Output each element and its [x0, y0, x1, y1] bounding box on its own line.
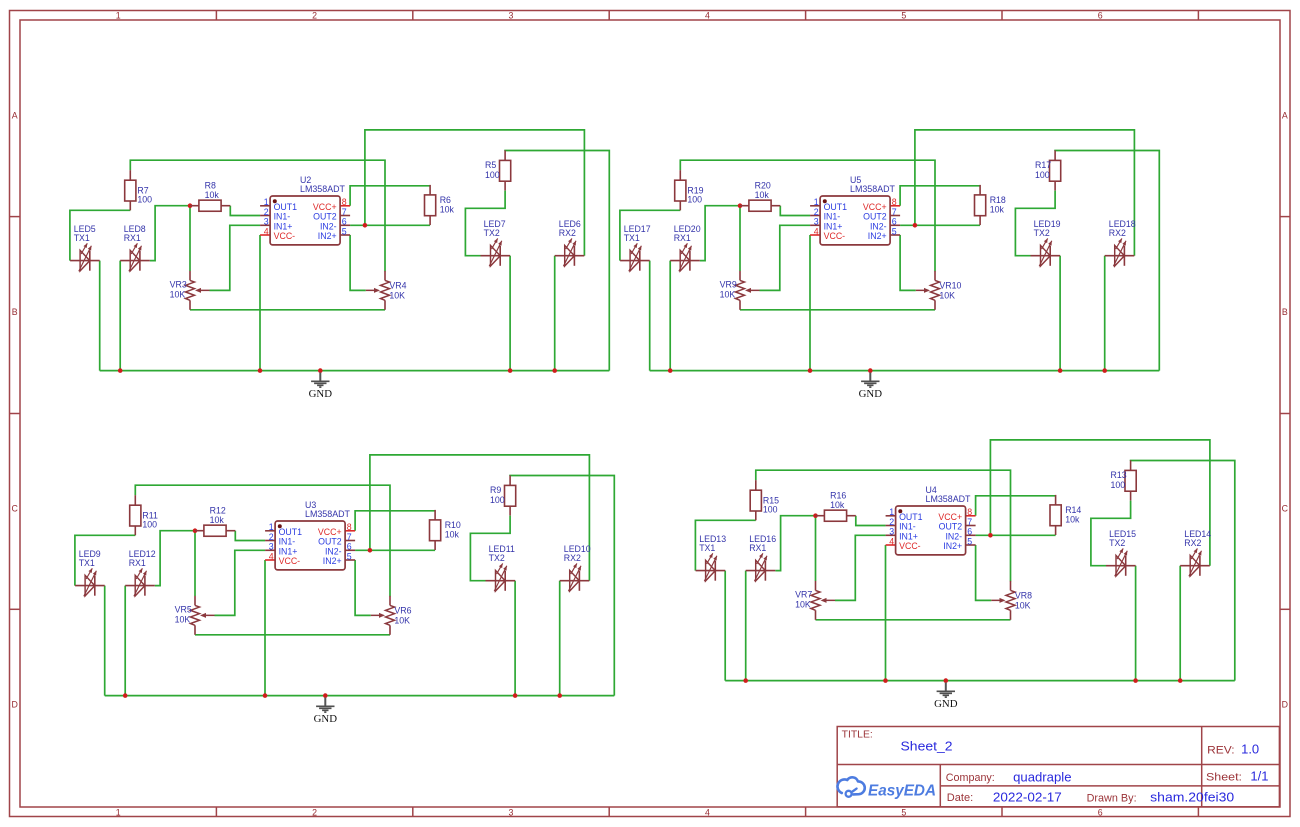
svg-text:VR8: VR8 — [1015, 591, 1032, 601]
resistor R5 100 — [485, 150, 511, 190]
svg-text:RX1: RX1 — [749, 543, 766, 553]
svg-text:10k: 10k — [830, 500, 845, 510]
LED LED20 RX1 — [670, 224, 701, 271]
LED LED9 TX1 — [75, 549, 105, 596]
junction node B — [988, 533, 993, 538]
wire R8.2 to pin 2 IN1- — [230, 206, 260, 216]
title block — [837, 727, 1279, 807]
svg-text:OUT1: OUT1 — [279, 527, 303, 537]
wire LED8.2 to node A — [700, 206, 740, 261]
svg-text:10K: 10K — [795, 599, 811, 609]
svg-text:7: 7 — [342, 207, 347, 217]
svg-text:TITLE:: TITLE: — [842, 729, 873, 740]
wire pin 4 VCC- to ground rail — [809, 235, 811, 371]
svg-text:sham.20fei30: sham.20fei30 — [1150, 790, 1234, 805]
wire LED5.2 to ground rail — [724, 571, 726, 681]
svg-text:1/1: 1/1 — [1250, 769, 1268, 784]
LED LED6 RX2 — [555, 219, 585, 266]
svg-text:Drawn By:: Drawn By: — [1087, 792, 1137, 804]
LED LED12 RX1 — [125, 549, 156, 596]
svg-text:100: 100 — [1035, 170, 1050, 180]
wire ground rail — [725, 680, 1235, 682]
svg-text:VCC-: VCC- — [899, 541, 921, 551]
junction LED7 / ground rail — [1133, 678, 1138, 683]
svg-text:LM358ADT: LM358ADT — [926, 494, 972, 504]
wire pin 3 IN1+ to VR3 wiper — [210, 225, 261, 290]
op-amp U5 LM358ADT — [810, 175, 900, 245]
svg-text:R5: R5 — [485, 160, 496, 170]
LED LED10 RX2 — [560, 544, 591, 591]
svg-text:1.0: 1.0 — [1241, 741, 1259, 756]
junction node B — [368, 548, 373, 553]
wire node B to LED6.2 — [990, 440, 1210, 566]
junction GND / ground rail — [318, 368, 323, 373]
svg-text:VCC-: VCC- — [274, 231, 296, 241]
junction node A — [813, 513, 818, 518]
LED LED11 TX2 — [486, 544, 516, 591]
LED LED14 RX2 — [1180, 529, 1211, 576]
svg-text:5: 5 — [347, 551, 352, 561]
svg-text:10k: 10k — [440, 205, 455, 215]
svg-text:4: 4 — [705, 807, 710, 817]
svg-text:R9: R9 — [490, 485, 501, 495]
svg-text:IN2+: IN2+ — [323, 556, 342, 566]
svg-text:OUT2: OUT2 — [318, 537, 342, 547]
svg-text:VR3: VR3 — [170, 279, 187, 289]
svg-text:10K: 10K — [1015, 600, 1031, 610]
wire ground rail — [100, 370, 610, 372]
wire node A to VR3.1 — [739, 206, 741, 271]
svg-text:OUT2: OUT2 — [313, 212, 337, 222]
svg-text:2022-02-17: 2022-02-17 — [993, 790, 1062, 805]
resistor R13 100 — [1111, 460, 1137, 500]
junction node B — [913, 223, 918, 228]
svg-text:1: 1 — [116, 807, 121, 817]
svg-text:10k: 10k — [755, 190, 770, 200]
wire node B to LED6.2 — [370, 455, 590, 581]
junction LED8 / ground rail — [668, 368, 673, 373]
wire VR3.3 to VR4.3 — [740, 309, 935, 311]
svg-text:IN1-: IN1- — [899, 522, 916, 532]
svg-text:B: B — [12, 307, 18, 317]
svg-text:OUT2: OUT2 — [863, 212, 887, 222]
svg-text:3: 3 — [269, 542, 274, 552]
ground GND — [309, 373, 333, 400]
svg-text:3: 3 — [509, 807, 514, 817]
resistor R8 10k — [190, 181, 230, 212]
svg-text:A: A — [1282, 111, 1288, 121]
svg-text:4: 4 — [264, 226, 269, 236]
wire VR3.3 to VR4.3 — [190, 309, 385, 311]
wire LED6.1 to ground rail — [1179, 566, 1181, 681]
junction node A — [193, 528, 198, 533]
wire pin 6 IN2- to R6.2 — [355, 549, 435, 551]
wire LED6.1 to ground rail — [559, 581, 561, 696]
svg-text:VR9: VR9 — [720, 279, 737, 289]
svg-text:10k: 10k — [990, 205, 1005, 215]
svg-text:1: 1 — [269, 522, 274, 532]
svg-text:6: 6 — [347, 542, 352, 552]
wire R7.2 to LED5.1 net — [620, 210, 680, 260]
svg-text:C: C — [1282, 503, 1289, 513]
svg-text:8: 8 — [347, 522, 352, 532]
svg-text:7: 7 — [967, 517, 972, 527]
wire R8.2 to pin 2 IN1- — [780, 206, 810, 216]
svg-text:10k: 10k — [205, 190, 220, 200]
svg-text:5: 5 — [901, 807, 906, 817]
svg-text:10K: 10K — [389, 290, 405, 300]
wire LED8.1 to ground rail — [745, 571, 747, 681]
svg-text:D: D — [12, 699, 18, 709]
svg-text:GND: GND — [859, 388, 883, 400]
wire pin 4 VCC- to ground rail — [264, 560, 266, 696]
svg-text:B: B — [1282, 307, 1288, 317]
resistor R11 100 — [130, 495, 158, 535]
junction GND / ground rail — [323, 693, 328, 698]
svg-text:IN2+: IN2+ — [318, 231, 337, 241]
wire node B to LED6.2 — [365, 130, 585, 256]
svg-text:VR4: VR4 — [389, 281, 406, 291]
wire pin 4 VCC- to ground rail — [259, 235, 261, 371]
resistor R16 10k — [816, 491, 856, 522]
wire R7.1 to VR4.1 net — [135, 485, 390, 596]
svg-text:1: 1 — [264, 197, 269, 207]
junction VCC- / ground rail — [883, 678, 888, 683]
svg-text:IN2-: IN2- — [945, 531, 962, 541]
svg-text:LM358ADT: LM358ADT — [305, 509, 351, 519]
svg-text:C: C — [12, 503, 19, 513]
junction LED7 / ground rail — [1058, 368, 1063, 373]
junction LED7 / ground rail — [513, 693, 518, 698]
wire pin 5 IN2+ to VR4 wiper — [976, 545, 992, 600]
svg-text:4: 4 — [705, 10, 710, 20]
svg-text:6: 6 — [342, 217, 347, 227]
wire R7.2 to LED5.1 net — [70, 210, 130, 260]
svg-text:OUT1: OUT1 — [899, 512, 923, 522]
svg-text:LM358ADT: LM358ADT — [300, 184, 346, 194]
svg-text:OUT1: OUT1 — [824, 202, 848, 212]
svg-text:10k: 10k — [210, 515, 225, 525]
potentiometer VR3 10K — [170, 271, 210, 310]
resistor R7 100 — [125, 170, 152, 210]
wire pin 5 IN2+ to VR4 wiper — [355, 560, 371, 615]
svg-text:10K: 10K — [394, 615, 410, 625]
wire LED7.2 to ground rail — [514, 581, 516, 696]
wire LED8.1 to ground rail — [119, 261, 121, 371]
resistor R17 100 — [1035, 150, 1061, 190]
svg-text:VR5: VR5 — [175, 604, 192, 614]
svg-text:2: 2 — [312, 807, 317, 817]
svg-text:2: 2 — [312, 10, 317, 20]
svg-text:100: 100 — [687, 195, 702, 205]
svg-text:TX2: TX2 — [484, 228, 500, 238]
svg-text:R13: R13 — [1111, 470, 1127, 480]
ground GND — [934, 683, 958, 710]
svg-text:IN1+: IN1+ — [824, 221, 843, 231]
wire node A to VR3.1 — [189, 206, 191, 271]
svg-text:VCC+: VCC+ — [863, 202, 887, 212]
svg-text:TX2: TX2 — [1109, 538, 1125, 548]
svg-text:RX1: RX1 — [129, 558, 146, 568]
svg-text:5: 5 — [892, 226, 897, 236]
LED LED17 TX1 — [620, 224, 651, 271]
wire pin 6 IN2- to R6.2 — [350, 224, 430, 226]
svg-text:OUT2: OUT2 — [939, 522, 963, 532]
wire LED8.2 to node A — [775, 516, 815, 571]
svg-text:REV:: REV: — [1207, 744, 1235, 756]
svg-text:2: 2 — [889, 517, 894, 527]
svg-text:IN2+: IN2+ — [868, 231, 887, 241]
svg-text:R10: R10 — [445, 520, 461, 530]
svg-text:VR6: VR6 — [394, 606, 411, 616]
svg-text:RX1: RX1 — [124, 233, 141, 243]
wire R7.1 to VR4.1 net — [756, 470, 1011, 581]
wire LED7.2 to ground rail — [1059, 256, 1061, 371]
resistor R18 10k — [975, 185, 1006, 225]
svg-text:Date:: Date: — [947, 792, 973, 804]
junction GND / ground rail — [868, 368, 873, 373]
svg-text:TX1: TX1 — [74, 233, 90, 243]
svg-text:6: 6 — [892, 217, 897, 227]
wire R7.1 to VR4.1 net — [130, 160, 385, 271]
resistor R14 10k — [1050, 495, 1081, 535]
wire LED8.2 to node A — [155, 531, 195, 586]
svg-text:3: 3 — [889, 527, 894, 537]
wire ground rail to R5.1 — [505, 151, 609, 371]
svg-text:VCC-: VCC- — [824, 231, 846, 241]
junction LED8 / ground rail — [743, 678, 748, 683]
svg-text:7: 7 — [892, 207, 897, 217]
op-amp U2 LM358ADT — [260, 175, 350, 245]
svg-text:8: 8 — [892, 197, 897, 207]
resistor R19 100 — [675, 170, 704, 210]
svg-text:100: 100 — [1111, 480, 1126, 490]
svg-text:R14: R14 — [1065, 505, 1081, 515]
svg-text:4: 4 — [814, 226, 819, 236]
svg-text:A: A — [12, 111, 18, 121]
svg-text:4: 4 — [889, 536, 894, 546]
LED LED15 TX2 — [1106, 529, 1136, 576]
wire VR3.3 to VR4.3 — [195, 634, 390, 636]
svg-text:RX2: RX2 — [559, 228, 576, 238]
resistor R9 100 — [490, 475, 516, 515]
svg-text:TX1: TX1 — [624, 233, 640, 243]
svg-text:IN1-: IN1- — [274, 212, 291, 222]
LED LED13 TX1 — [696, 534, 727, 581]
svg-text:100: 100 — [490, 495, 505, 505]
LED LED7 TX2 — [481, 219, 511, 266]
svg-text:100: 100 — [137, 195, 152, 205]
wire R5.2 to LED7.1 — [465, 191, 505, 256]
potentiometer VR7 10K — [795, 581, 835, 620]
wire R8.2 to pin 2 IN1- — [235, 531, 265, 541]
wire node B to LED6.2 — [915, 130, 1135, 256]
svg-text:100: 100 — [142, 520, 157, 530]
wire ground rail to R5.1 — [1055, 151, 1159, 371]
svg-text:1: 1 — [889, 507, 894, 517]
wire node A to VR3.1 — [194, 531, 196, 596]
potentiometer VR10 10K — [916, 271, 962, 310]
svg-text:VCC+: VCC+ — [313, 202, 337, 212]
svg-text:8: 8 — [342, 197, 347, 207]
junction node B — [363, 223, 368, 228]
svg-text:TX1: TX1 — [699, 543, 715, 553]
svg-text:VCC+: VCC+ — [938, 512, 962, 522]
wire R7.1 to VR4.1 net — [680, 160, 935, 271]
svg-text:10K: 10K — [175, 614, 191, 624]
junction GND / ground rail — [944, 678, 949, 683]
svg-text:R18: R18 — [990, 195, 1006, 205]
wire node A to VR3.1 — [815, 516, 817, 581]
wire LED7.2 to ground rail — [509, 256, 511, 371]
svg-text:Sheet:: Sheet: — [1206, 772, 1242, 784]
svg-text:6: 6 — [1098, 10, 1103, 20]
wire LED8.1 to ground rail — [124, 586, 126, 696]
svg-text:100: 100 — [485, 170, 500, 180]
svg-text:TX2: TX2 — [489, 553, 505, 563]
svg-text:R17: R17 — [1035, 160, 1051, 170]
junction VCC- / ground rail — [258, 368, 263, 373]
wire LED6.1 to ground rail — [1104, 256, 1106, 371]
svg-text:VR10: VR10 — [939, 281, 961, 291]
wire R5.2 to LED7.1 — [1015, 191, 1055, 256]
wire LED5.2 to ground rail — [99, 261, 101, 371]
ground GND — [314, 698, 338, 725]
junction LED8 / ground rail — [118, 368, 123, 373]
wire R7.2 to LED5.1 net — [75, 535, 135, 585]
wire pin 5 IN2+ to VR4 wiper — [900, 235, 916, 290]
svg-text:IN2+: IN2+ — [943, 541, 962, 551]
potentiometer VR4 10K — [366, 271, 407, 310]
wire pin 8 VCC+ to R6.1 — [900, 186, 980, 206]
wire pin 3 IN1+ to VR3 wiper — [760, 225, 811, 290]
wire ground rail — [105, 695, 615, 697]
op-amp U3 LM358ADT — [265, 500, 355, 570]
junction LED8 / ground rail — [123, 693, 128, 698]
op-amp U4 LM358ADT — [886, 485, 976, 555]
svg-text:RX2: RX2 — [1184, 538, 1201, 548]
svg-text:5: 5 — [901, 10, 906, 20]
wire LED5.2 to ground rail — [649, 261, 651, 371]
svg-text:IN1+: IN1+ — [279, 546, 298, 556]
svg-text:2: 2 — [814, 207, 819, 217]
svg-text:EasyEDA: EasyEDA — [868, 782, 936, 799]
wire ground rail — [650, 370, 1160, 372]
wire pin 6 IN2- to R6.2 — [976, 534, 1056, 536]
svg-text:8: 8 — [967, 507, 972, 517]
svg-text:10K: 10K — [939, 290, 955, 300]
svg-text:IN2-: IN2- — [870, 221, 887, 231]
wire LED5.2 to ground rail — [104, 586, 106, 696]
svg-text:5: 5 — [967, 536, 972, 546]
wire R8.2 to pin 2 IN1- — [856, 516, 886, 526]
junction LED6 / ground rail — [1178, 678, 1183, 683]
resistor R12 10k — [195, 506, 235, 537]
svg-text:quadraple: quadraple — [1013, 769, 1071, 784]
LED LED16 RX1 — [746, 534, 777, 581]
svg-text:VCC-: VCC- — [279, 556, 301, 566]
potentiometer VR9 10K — [720, 271, 760, 310]
wire pin 3 IN1+ to VR3 wiper — [215, 550, 266, 615]
junction LED6 / ground rail — [1102, 368, 1107, 373]
svg-text:IN1+: IN1+ — [899, 531, 918, 541]
wire ground rail to R5.1 — [1131, 461, 1235, 681]
svg-text:GND: GND — [314, 713, 338, 725]
svg-text:2: 2 — [269, 532, 274, 542]
wire VR3.3 to VR4.3 — [816, 619, 1011, 621]
svg-text:OUT1: OUT1 — [274, 202, 298, 212]
svg-text:Company:: Company: — [946, 772, 995, 784]
LED LED8 RX1 — [120, 224, 150, 271]
wire LED6.1 to ground rail — [554, 256, 556, 371]
svg-text:6: 6 — [967, 527, 972, 537]
wire R7.2 to LED5.1 net — [695, 520, 755, 570]
svg-text:IN2-: IN2- — [325, 546, 342, 556]
svg-text:10k: 10k — [445, 530, 460, 540]
resistor R6 10k — [425, 185, 455, 225]
svg-text:IN2-: IN2- — [320, 221, 337, 231]
junction node A — [188, 203, 193, 208]
svg-text:5: 5 — [342, 226, 347, 236]
svg-text:VCC+: VCC+ — [318, 527, 342, 537]
svg-text:LM358ADT: LM358ADT — [850, 184, 896, 194]
svg-text:Sheet_2: Sheet_2 — [901, 739, 953, 754]
wire pin 6 IN2- to R6.2 — [900, 224, 980, 226]
LED LED18 RX2 — [1105, 219, 1136, 266]
LED LED19 TX2 — [1031, 219, 1061, 266]
resistor R10 10k — [430, 510, 461, 550]
svg-text:100: 100 — [763, 505, 778, 515]
wire R5.2 to LED7.1 — [470, 516, 510, 581]
potentiometer VR8 10K — [991, 581, 1032, 620]
wire pin 3 IN1+ to VR3 wiper — [835, 535, 886, 600]
wire pin 8 VCC+ to R6.1 — [355, 511, 435, 531]
svg-text:7: 7 — [347, 532, 352, 542]
resistor R15 100 — [750, 480, 779, 520]
svg-text:VR7: VR7 — [795, 589, 812, 599]
svg-text:10K: 10K — [170, 289, 186, 299]
junction LED7 / ground rail — [508, 368, 513, 373]
wire pin 4 VCC- to ground rail — [885, 545, 887, 681]
svg-text:RX1: RX1 — [674, 233, 691, 243]
wire ground rail to R5.1 — [510, 476, 614, 696]
svg-text:3: 3 — [814, 217, 819, 227]
svg-text:RX2: RX2 — [564, 553, 581, 563]
svg-text:D: D — [1282, 699, 1288, 709]
junction node A — [738, 203, 743, 208]
svg-text:3: 3 — [509, 10, 514, 20]
svg-text:TX2: TX2 — [1034, 228, 1050, 238]
svg-text:GND: GND — [934, 698, 958, 710]
LED LED5 TX1 — [70, 224, 100, 271]
wire pin 8 VCC+ to R6.1 — [976, 496, 1056, 516]
svg-text:1: 1 — [116, 10, 121, 20]
junction VCC- / ground rail — [808, 368, 813, 373]
svg-text:3: 3 — [264, 217, 269, 227]
svg-text:1: 1 — [814, 197, 819, 207]
ground GND — [859, 373, 883, 400]
wire LED7.2 to ground rail — [1135, 566, 1137, 681]
svg-text:IN1+: IN1+ — [274, 221, 293, 231]
resistor R20 10k — [740, 181, 780, 212]
svg-text:IN1-: IN1- — [824, 212, 841, 222]
svg-text:R6: R6 — [440, 195, 451, 205]
wire LED8.2 to node A — [150, 206, 190, 261]
junction LED6 / ground rail — [557, 693, 562, 698]
wire LED8.1 to ground rail — [669, 261, 671, 371]
potentiometer VR5 10K — [175, 596, 215, 635]
junction VCC- / ground rail — [263, 693, 268, 698]
